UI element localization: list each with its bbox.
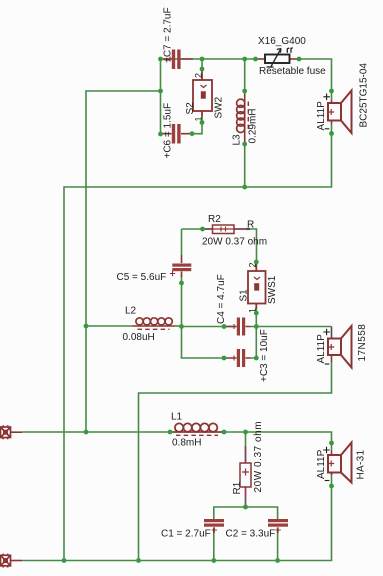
svg-text:S1: S1 (239, 289, 250, 302)
capacitor C3 (224, 357, 251, 359)
wire C1 C2 bus (214, 507, 278, 519)
wire R2 out to SWS1 (250, 229, 257, 262)
fuse X16_G400 (256, 48, 300, 67)
svg-text:R: R (247, 220, 254, 231)
svg-text:20W 0.37 ohm: 20W 0.37 ohm (253, 421, 264, 493)
wire C2 bottom (277, 533, 279, 561)
svg-text:SWS1: SWS1 (267, 275, 278, 304)
svg-text:BC25TG15-04: BC25TG15-04 (359, 63, 370, 128)
wire fuse to tweeter top (299, 59, 332, 100)
svg-text:0.8mH: 0.8mH (172, 438, 201, 449)
capacitor C2 (277, 528, 279, 534)
capacitor C6 (161, 133, 192, 135)
svg-text:R1: R1 (232, 481, 243, 494)
wire L3 top branch (244, 59, 246, 91)
wire bottom input rail y=432 (22, 432, 332, 443)
wire SWS1 pin1 down (255, 309, 257, 327)
speaker 17N558 (328, 326, 352, 368)
svg-text:S2: S2 (185, 102, 196, 115)
svg-text:SW2: SW2 (214, 96, 225, 118)
svg-text:AL11P: AL11P (316, 449, 327, 479)
svg-text:2: 2 (194, 73, 204, 78)
speaker HA-31 (328, 443, 352, 483)
svg-text:L3: L3 (232, 134, 243, 146)
wire R2 input segment (182, 228, 203, 230)
wire C4 out to speaker node (251, 326, 332, 328)
svg-text:C5 = 5.6uF: C5 = 5.6uF (117, 272, 167, 283)
wire HA31 top stub (331, 443, 333, 451)
svg-text:0.08uH: 0.08uH (123, 332, 155, 343)
svg-text:AL11P: AL11P (316, 101, 327, 131)
resistor R1 (245, 446, 247, 507)
wire HA31 bottom stub (331, 472, 333, 487)
svg-text:+C7 = 2.7uF: +C7 = 2.7uF (162, 7, 173, 63)
speaker 17N558 labels (323, 329, 330, 336)
wire L2 row (86, 325, 133, 327)
wire bottom return rail y=560.5 (22, 486, 332, 561)
wire S2 pin2 stub (201, 59, 203, 69)
svg-text:+C3 = 10uF: +C3 = 10uF (259, 329, 270, 382)
wire R1 branch top (245, 432, 247, 446)
svg-text:C4 = 4.7uF: C4 = 4.7uF (216, 274, 227, 324)
svg-text:AL11P: AL11P (316, 334, 327, 364)
capacitor C1 (213, 528, 215, 534)
resistor R2 (203, 228, 251, 230)
wire C1 bottom (213, 533, 215, 561)
svg-text:HA-31: HA-31 (356, 450, 367, 480)
speaker BC25TG15-04 (328, 91, 352, 134)
svg-text:R2: R2 (208, 214, 221, 225)
svg-text:X16_G400: X16_G400 (258, 36, 306, 47)
switch S2 (193, 69, 212, 117)
svg-text:C2 = 3.3uF: C2 = 3.3uF (226, 529, 276, 540)
svg-text:L1: L1 (171, 412, 183, 423)
capacitor C4 (224, 326, 251, 328)
speaker BC25TG15-04 labels (323, 94, 330, 101)
svg-text:Resetable fuse: Resetable fuse (259, 66, 326, 77)
connector pad input top (1, 425, 23, 439)
wire C5 top vertical (181, 229, 183, 255)
inductor L3 (237, 91, 249, 144)
speaker HA-31 labels (323, 447, 330, 454)
wire input tap y=91 (86, 91, 161, 432)
connector pad input bottom (1, 554, 23, 568)
svg-text:17N558: 17N558 (357, 324, 368, 362)
svg-text:20W 0.37 ohm: 20W 0.37 ohm (202, 237, 267, 248)
switch SWS1 (248, 262, 266, 309)
wire top rail y=59 from C7 to fuse (161, 58, 256, 60)
svg-text:0.29mH: 0.29mH (248, 108, 259, 143)
wire C4 row left (182, 326, 237, 328)
wire S2 pin1 to C6 (192, 116, 202, 134)
wire mid speaker return (139, 362, 332, 561)
svg-text:C1 = 2.7uF: C1 = 2.7uF (161, 529, 211, 540)
wire input vertical x=160.5 (160, 59, 162, 134)
inductor L1 (171, 423, 224, 435)
wire L2 out to cross (175, 325, 182, 327)
capacitor C7 (161, 57, 193, 62)
inductor L2 (133, 318, 176, 330)
svg-text:+C6 = 1.5uF: +C6 = 1.5uF (163, 103, 174, 159)
wire C5 bottom to L2 node to C3 (182, 276, 225, 358)
wire L3 bottom to rail (244, 144, 246, 187)
svg-text:L2: L2 (125, 306, 137, 317)
capacitor C5 (181, 255, 183, 277)
wire tweeter bottom down and left rail y=187 (64, 124, 332, 561)
wire speaker node down to C3 right (251, 327, 257, 359)
